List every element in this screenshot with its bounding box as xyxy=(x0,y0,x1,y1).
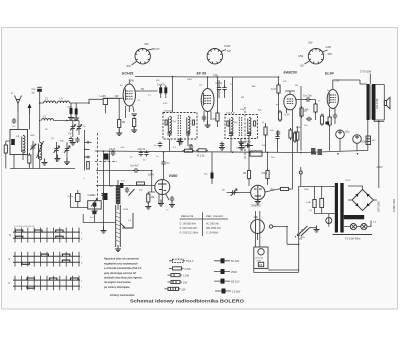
coupling cap C14 xyxy=(133,168,139,172)
svg-text:a ochroda umownictwa (PuLL/1: a ochroda umownictwa (PuLL/1 xyxy=(104,267,142,270)
svg-text:470k: 470k xyxy=(262,171,268,175)
V1 grid lead left xyxy=(103,97,123,99)
svg-text:A: A xyxy=(11,91,13,95)
Rx wires xyxy=(6,141,10,169)
dark cluster b xyxy=(318,149,323,155)
T1 inner cap L xyxy=(165,120,167,125)
left small cap xyxy=(12,118,16,124)
svg-text:250V: 250V xyxy=(231,270,237,274)
V2 cathode ground xyxy=(205,121,211,128)
svg-text:6, 104 MHz: 6, 104 MHz xyxy=(206,231,219,234)
ground bus bottom-left xyxy=(10,168,75,170)
antenna down-wires xyxy=(18,112,30,130)
svg-text:Lw45: Lw45 xyxy=(100,94,107,98)
wire antenna row xyxy=(40,99,99,103)
switch resistor xyxy=(87,162,90,170)
AVC ecap wires xyxy=(211,152,213,184)
top rail wire V2 to IF2 xyxy=(208,77,233,112)
legend R row1 symbol xyxy=(214,258,230,263)
V3 cap C16 xyxy=(276,130,280,136)
TR1 heater winding arm xyxy=(344,215,365,219)
S1 pointer line xyxy=(148,49,154,50)
0.47k wires xyxy=(278,77,280,112)
pot wiper arrow xyxy=(120,213,133,228)
notes paragraph xyxy=(103,258,143,285)
bus resistor R5 xyxy=(196,149,208,152)
svg-text:EF 89: EF 89 xyxy=(197,72,207,76)
AVC resistor wires xyxy=(249,153,268,187)
osc coil (dark winding) xyxy=(116,180,121,210)
svg-text:Schemat ideowy radioodbiornika: Schemat ideowy radioodbiornika BOLERO xyxy=(130,299,245,304)
decoupling cap C11 xyxy=(111,150,115,156)
AF line to V3 xyxy=(300,86,302,151)
T1 trimmer cap left xyxy=(167,131,171,137)
svg-text:C3: C3 xyxy=(68,105,72,109)
R6 wires xyxy=(265,123,267,152)
T2 resistor wire xyxy=(217,77,219,127)
V6 ground lead xyxy=(257,200,259,202)
T1 secondary coil xyxy=(187,117,190,134)
coupling cap Cw20n xyxy=(305,97,311,101)
cap C15 xyxy=(275,135,279,141)
trimmer bottom wires xyxy=(73,131,79,138)
decoupling ecap 2 xyxy=(75,107,78,117)
IF1 coil down wires xyxy=(170,137,189,151)
svg-text:200V: 200V xyxy=(187,79,193,81)
tube V1 ECH81 envelope xyxy=(123,84,135,106)
svg-text:6,3V: 6,3V xyxy=(163,103,168,105)
output transformer TR2 core bar 2 xyxy=(372,84,376,120)
S3 pointer line xyxy=(305,61,310,64)
L6 lower wire xyxy=(104,105,106,114)
R1 wire xyxy=(118,98,120,133)
svg-text:Cw 20n: Cw 20n xyxy=(303,94,312,98)
V2 anode lead to top rail xyxy=(207,77,209,89)
left coupling wires xyxy=(71,190,89,208)
svg-text:FM: FM xyxy=(241,97,244,99)
resistor R7 right xyxy=(296,130,299,142)
svg-text:25V: 25V xyxy=(156,80,160,82)
legend L row2 symbol xyxy=(169,267,184,270)
AVC resistor pair Rb xyxy=(266,169,269,181)
AF bus part a xyxy=(120,183,123,188)
comb1 contact bridges xyxy=(15,230,63,238)
arm resistor xyxy=(137,182,145,185)
svg-text:Gniazdo: Gniazdo xyxy=(255,258,264,260)
ground mark on bus xyxy=(42,159,48,166)
legend R row4 symbol xyxy=(215,289,231,294)
legend L row3 symbol xyxy=(168,274,183,277)
svg-text:1W: 1W xyxy=(115,94,119,98)
V4 cathode cap xyxy=(333,113,337,119)
V1 anode lead right xyxy=(136,90,158,92)
T1 trimmer cap right xyxy=(186,131,190,137)
bridge output wire xyxy=(348,186,377,200)
svg-text:B-5691 W24: B-5691 W24 xyxy=(393,198,396,212)
S3 pointer line xyxy=(322,50,328,52)
V6 side wires xyxy=(265,189,279,192)
top rail wire V1 area xyxy=(135,76,208,79)
osc box leads xyxy=(94,204,96,211)
svg-text:na wzglos niszczname: na wzglos niszczname xyxy=(104,281,131,284)
osc trimmer inside xyxy=(93,203,97,207)
cap near V5 xyxy=(170,196,174,202)
svg-text:SW: SW xyxy=(130,78,135,82)
left trimmer wires xyxy=(32,141,34,169)
L5 tail wire xyxy=(54,120,71,122)
svg-text:Zakr. czestotl.: Zakr. czestotl. xyxy=(206,214,223,218)
V2 cathode cap xyxy=(202,115,206,121)
gang capacitor CV2 xyxy=(64,146,70,153)
R8 wire xyxy=(291,130,293,189)
mains switch xyxy=(299,226,310,236)
svg-text:AM: AM xyxy=(252,85,255,88)
svg-text:S: S xyxy=(9,257,11,261)
svg-text:5V/1,4: 5V/1,4 xyxy=(186,259,194,263)
V4 anode lead up xyxy=(333,80,341,90)
T2 input resistor xyxy=(216,111,219,123)
grid coil L6 xyxy=(103,99,107,105)
bottom right wiring xyxy=(254,186,299,272)
svg-text:1,5W: 1,5W xyxy=(183,274,190,278)
svg-text:ECH81: ECH81 xyxy=(122,72,134,76)
left coupling part xyxy=(76,194,81,202)
svg-text:R1M: R1M xyxy=(124,209,129,211)
svg-text:drobiabi raba obszczba regrech: drobiabi raba obszczba regrech. xyxy=(104,277,143,280)
detector tube V6 circle xyxy=(251,185,265,199)
band table divider xyxy=(201,212,203,236)
V1 top cap lead xyxy=(128,79,130,84)
svg-text:N: N xyxy=(9,233,11,237)
pilot lamp 1 xyxy=(350,224,356,230)
R7 wires xyxy=(296,126,298,153)
switch arm blob xyxy=(129,189,135,196)
T1 lead down xyxy=(180,139,182,142)
mains vertical wire xyxy=(378,122,380,189)
V3 leads down xyxy=(287,109,293,130)
svg-text:SW: SW xyxy=(127,64,132,68)
bus cap pair xyxy=(189,144,193,150)
antenna coupling cap xyxy=(37,89,42,92)
small cap cluster a xyxy=(306,117,312,121)
cap C10 xyxy=(161,160,165,166)
svg-text:S: 520-1600 kHz: S: 520-1600 kHz xyxy=(180,227,199,230)
filter cap rect xyxy=(366,136,371,145)
output transformer TR2 core bar 1 xyxy=(367,84,370,120)
svg-text:220kA-M: 220kA-M xyxy=(226,112,235,115)
svg-text:680-1950 kHz: 680-1950 kHz xyxy=(206,227,222,230)
trimmer ground xyxy=(70,139,76,146)
bus resistor R4 xyxy=(183,149,195,152)
svg-text:Cw47n: Cw47n xyxy=(157,83,166,87)
svg-text:det: det xyxy=(276,103,279,106)
comb2 ticks xyxy=(15,252,79,267)
resistor R10 xyxy=(278,110,281,122)
left wire down xyxy=(103,152,105,230)
socket box Gniazdo xyxy=(254,247,268,269)
TR2 top wires xyxy=(370,85,373,120)
lower cap cluster c5 xyxy=(69,137,73,143)
left resistor Rx xyxy=(4,143,7,155)
svg-text:TS 9,5W 50Hz: TS 9,5W 50Hz xyxy=(345,238,361,241)
svg-text:AC 290 kHz: AC 290 kHz xyxy=(206,223,220,226)
speaker xyxy=(384,97,390,109)
svg-text:1M: 1M xyxy=(295,85,298,87)
T2 inner cap L xyxy=(227,121,229,126)
svg-text:180V: 180V xyxy=(148,173,154,177)
V2 screen cap 2 xyxy=(222,86,226,92)
main vertical wire from ant cap xyxy=(39,92,41,169)
tube socket S3 xyxy=(308,49,323,64)
osc padder blob xyxy=(103,193,108,200)
T1 core xyxy=(178,115,180,136)
svg-text:1M: 1M xyxy=(122,120,126,124)
jack right wire xyxy=(273,227,287,245)
volume pot strip xyxy=(116,205,121,247)
V3 bias resistor 2 xyxy=(293,131,296,143)
gang cap ground 2 xyxy=(64,158,70,165)
input coil L3b xyxy=(58,101,70,103)
T1 inner cap R xyxy=(192,120,194,125)
R9 ground xyxy=(145,203,151,210)
top ground tick near V1 xyxy=(132,114,138,116)
svg-text:Cw57: Cw57 xyxy=(91,195,97,197)
ecap ground 2 xyxy=(73,114,79,121)
svg-text:EM80: EM80 xyxy=(169,174,178,178)
svg-text:TR: TR xyxy=(141,87,145,91)
ground left xyxy=(101,227,107,234)
svg-text:BZP 250V: BZP 250V xyxy=(378,201,381,212)
ferrite coil xyxy=(22,136,25,153)
svg-text:10n 5k: 10n 5k xyxy=(138,147,146,151)
V2 screen caps C xyxy=(217,86,221,92)
cap top plate xyxy=(37,86,42,88)
resistor R9 xyxy=(147,192,150,204)
svg-text:EABC80: EABC80 xyxy=(284,71,297,75)
T2 inner cap R xyxy=(254,121,256,126)
AVC ecap xyxy=(211,171,214,181)
phono terminal wire xyxy=(300,167,302,186)
comb3 ticks xyxy=(15,276,79,291)
V1 anode ecap 2 xyxy=(164,85,167,95)
svg-text:pety niezonego zwrocia tef: pety niezonego zwrocia tef xyxy=(103,272,137,275)
V5 ground xyxy=(158,200,164,207)
svg-text:APU: APU xyxy=(301,236,306,239)
V1 cathode resistor xyxy=(133,117,136,129)
svg-text:K: K xyxy=(9,281,11,285)
mains wire to transformer xyxy=(299,186,337,226)
cap C13 xyxy=(144,151,148,157)
ext antenna arrowhead xyxy=(28,104,32,109)
Cw20n wires xyxy=(295,99,316,101)
IF2 coil down wires xyxy=(231,137,249,153)
C14 wires xyxy=(96,171,152,193)
V5 right ground xyxy=(169,201,175,208)
svg-text:D: 190-580 kHz: D: 190-580 kHz xyxy=(180,223,197,226)
transformer primary wire xyxy=(296,226,317,238)
V4 cathode resistor xyxy=(328,115,331,127)
phono terminal xyxy=(299,171,302,174)
T2 trimmer cap right xyxy=(247,132,251,138)
B+ rail top right xyxy=(341,79,360,81)
padder trimmer 1 xyxy=(70,125,76,131)
svg-text:R 2,2k: R 2,2k xyxy=(197,154,205,158)
power transformer TR1 core bar 1 xyxy=(335,183,338,233)
svg-text:Cw: Cw xyxy=(32,87,36,91)
dark cluster a xyxy=(311,148,316,155)
switch ground xyxy=(314,226,320,233)
osc coil box xyxy=(88,201,102,209)
svg-text:1M: 1M xyxy=(243,171,247,175)
AGC ground xyxy=(239,144,245,151)
svg-text:Cw: Cw xyxy=(12,126,16,128)
legend L row1 symbol xyxy=(169,259,185,262)
band switch bus xyxy=(83,130,85,171)
mains switch dots xyxy=(297,234,299,236)
tuning coil L2 with core arrow xyxy=(37,141,44,160)
svg-text:EM80/C: EM80/C xyxy=(252,204,261,208)
svg-text:0,5A: 0,5A xyxy=(306,201,311,204)
V1 cathode leads down xyxy=(126,106,135,119)
wire to IF1 top xyxy=(172,77,174,113)
V2 cathode leads xyxy=(204,111,211,125)
screen bypass cap xyxy=(220,142,224,148)
C15 wires xyxy=(277,131,279,153)
osc box ground xyxy=(92,207,98,214)
switch contact tick 2 xyxy=(84,148,89,150)
resistor 0.47k xyxy=(277,83,280,95)
tube socket S2 xyxy=(207,49,222,64)
svg-text:OW: OW xyxy=(308,41,313,45)
V2 screen stem wires xyxy=(219,80,225,98)
legend L row5 symbol xyxy=(165,287,181,290)
volume pot symbol xyxy=(231,189,238,196)
band coil L5 xyxy=(42,119,54,121)
svg-text:OA85: OA85 xyxy=(244,140,251,144)
input coil L3a xyxy=(44,101,56,103)
ground below R1 xyxy=(116,129,122,136)
svg-text:2W: 2W xyxy=(182,287,186,291)
ground on bus xyxy=(177,139,183,146)
antenna xyxy=(15,96,22,113)
svg-text:po zmiany dostrajane: po zmiany dostrajane xyxy=(103,286,130,289)
legend L row4 symbol xyxy=(168,280,183,283)
wire to V5 xyxy=(148,180,163,195)
T2 primary coil xyxy=(230,118,233,135)
IF transformer T2 box (dashed) xyxy=(225,115,258,139)
trimmer top wires xyxy=(70,121,79,125)
bridge rectifier D1-D4 xyxy=(352,190,374,211)
S2 pointer line xyxy=(221,50,226,52)
svg-text:GD-0,5B: GD-0,5B xyxy=(375,98,379,109)
switch mech dashed line xyxy=(95,161,117,163)
ecap stems xyxy=(71,103,76,107)
S1 pointer line xyxy=(132,62,137,66)
AVC resistor pair Ra xyxy=(247,169,250,181)
svg-text:OW: OW xyxy=(144,42,149,46)
switch comb 1 rails xyxy=(13,232,80,238)
svg-text:Adp: Adp xyxy=(254,215,259,219)
switch contact tick 1 xyxy=(84,141,91,144)
comb3 contact bridges xyxy=(27,278,78,288)
small cap cluster b xyxy=(320,114,323,126)
V6 ground xyxy=(255,198,261,205)
svg-text:0,5W: 0,5W xyxy=(185,267,192,271)
switch comb 3 rails xyxy=(13,280,80,286)
V5 leads xyxy=(159,194,169,204)
wire x109 xyxy=(109,152,113,186)
filter ecap circle 1 xyxy=(336,130,345,151)
svg-text:220kA-M: 220kA-M xyxy=(164,110,173,113)
pot wire xyxy=(227,192,251,194)
svg-text:Cw: Cw xyxy=(199,85,203,87)
svg-text:1M: 1M xyxy=(222,190,225,192)
band table header rule xyxy=(180,218,229,220)
switch contact tick 3 xyxy=(84,156,90,159)
svg-text:50u: 50u xyxy=(345,130,350,134)
gang cap wires xyxy=(57,142,68,162)
legend R row3 symbol xyxy=(214,279,230,284)
comb1 ticks xyxy=(15,228,79,243)
small part c xyxy=(326,122,330,125)
svg-text:G4B: G4B xyxy=(326,45,331,49)
screen bypass ground xyxy=(219,144,225,151)
decoupling ecap 1 xyxy=(70,106,73,116)
ext antenna arrow xyxy=(29,107,31,114)
gang cap ground xyxy=(55,155,61,162)
svg-text:1M: 1M xyxy=(151,195,155,199)
tube V3 EABC80 envelope xyxy=(284,94,296,110)
osc trimmer arrow xyxy=(91,199,98,207)
det filter box xyxy=(250,151,262,156)
jack terminal xyxy=(269,225,272,228)
svg-text:LW: LW xyxy=(300,64,304,68)
comb2 contact bridges xyxy=(22,254,70,264)
svg-text:0,47: 0,47 xyxy=(271,87,277,91)
cap C12 xyxy=(139,151,143,157)
AM det diode xyxy=(246,144,254,148)
svg-text:MW: MW xyxy=(299,54,304,58)
TR1 bottom line xyxy=(333,234,373,236)
magic eye tube V5 circle xyxy=(155,180,170,195)
svg-text:OSW: OSW xyxy=(224,44,231,48)
AM-FM switch dashed link xyxy=(244,107,246,160)
osc bottom bus xyxy=(83,214,116,223)
switch comb 2 rails xyxy=(13,256,80,262)
V1 cathode ground xyxy=(131,126,137,133)
switch wafer dashed link xyxy=(97,133,99,198)
svg-text:TW: TW xyxy=(227,49,232,53)
svg-text:L7B: L7B xyxy=(335,79,340,83)
ecap ground 1 xyxy=(68,114,74,121)
T2 core xyxy=(239,117,241,136)
grid stopper R8 xyxy=(279,188,291,191)
svg-text:Napisach oltze sie umowione: Napisach oltze sie umowione xyxy=(104,258,139,261)
ferrite antenna box xyxy=(10,130,28,155)
lower cap cluster c6 xyxy=(75,137,79,143)
IF transformer T1 box (dashed) xyxy=(163,113,197,140)
svg-text:Zmiany zastrzezone: Zmiany zastrzezone xyxy=(109,293,135,297)
svg-text:1W: 1W xyxy=(183,280,187,284)
svg-text:TS70: TS70 xyxy=(345,180,351,182)
tube V2 EF89 envelope xyxy=(201,89,214,112)
pilot lamp 2 xyxy=(361,224,367,230)
T1 primary coil xyxy=(168,117,171,134)
V1 anode ecap 1 xyxy=(159,85,162,95)
svg-text:13-18V: 13-18V xyxy=(232,289,241,293)
AGC cap xyxy=(239,142,243,148)
svg-text:220V: 220V xyxy=(377,165,383,169)
